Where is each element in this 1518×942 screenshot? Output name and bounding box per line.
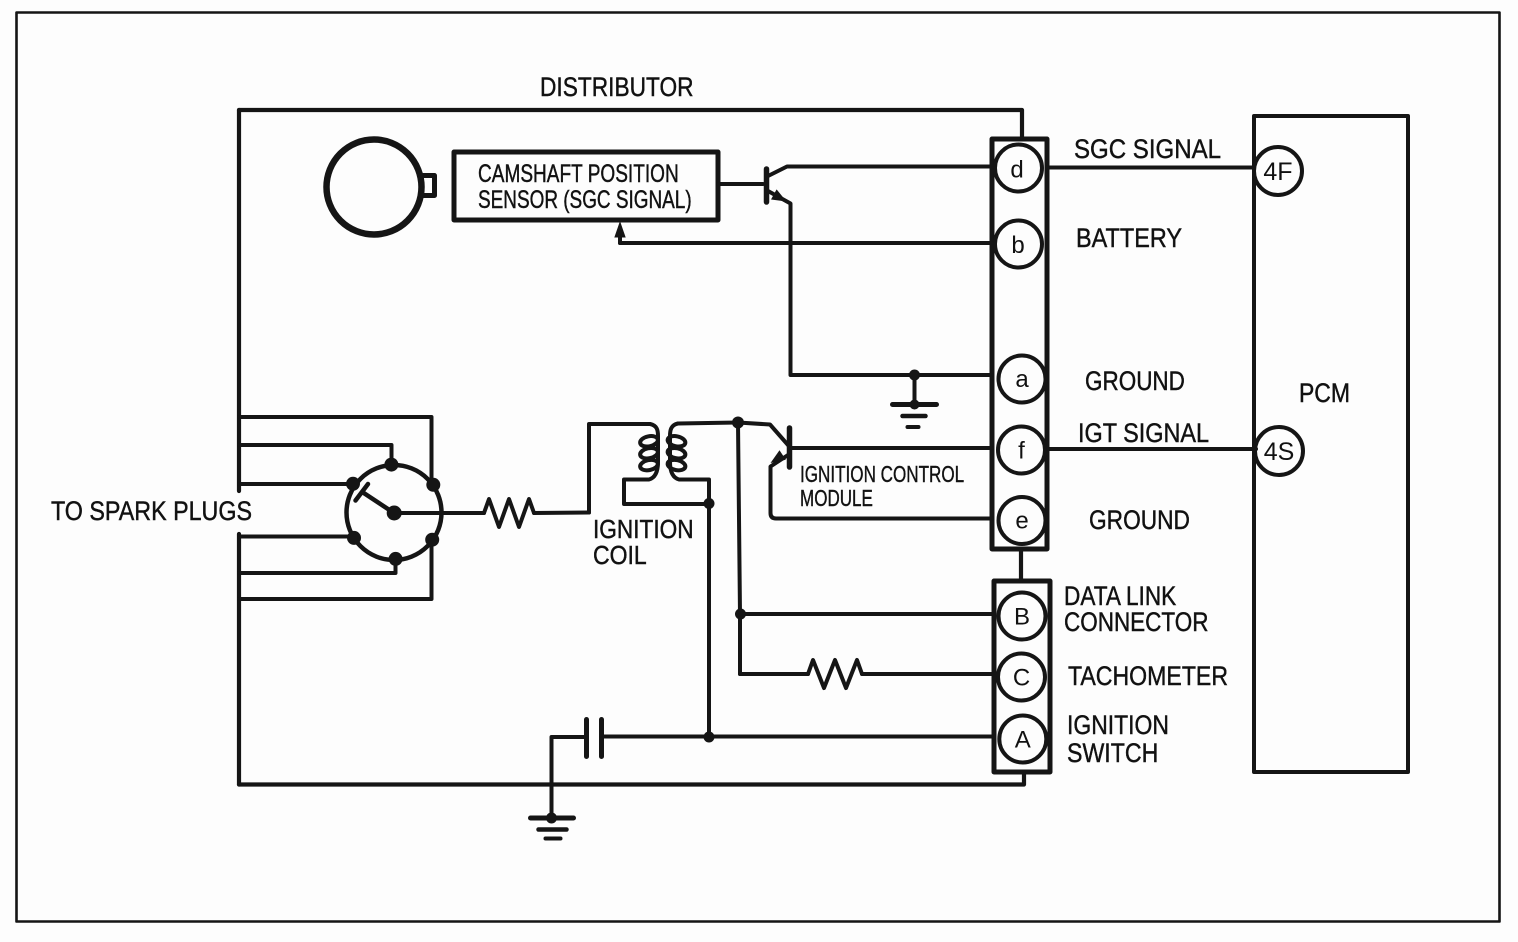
svg-text:DATA LINK: DATA LINK <box>1064 581 1177 611</box>
svg-text:f: f <box>1018 438 1025 465</box>
svg-text:IGNITION: IGNITION <box>593 516 694 545</box>
svg-text:IGT SIGNAL: IGT SIGNAL <box>1078 419 1209 449</box>
svg-text:B: B <box>1014 604 1030 631</box>
svg-text:4S: 4S <box>1264 438 1295 466</box>
svg-text:GROUND: GROUND <box>1085 367 1185 396</box>
svg-text:BATTERY: BATTERY <box>1076 224 1182 254</box>
svg-text:a: a <box>1015 366 1029 393</box>
svg-text:CAMSHAFT POSITION: CAMSHAFT POSITION <box>478 160 679 188</box>
svg-text:TO SPARK PLUGS: TO SPARK PLUGS <box>51 496 252 526</box>
svg-text:IGNITION: IGNITION <box>1067 710 1169 740</box>
svg-text:SGC SIGNAL: SGC SIGNAL <box>1074 135 1221 165</box>
svg-text:CONNECTOR: CONNECTOR <box>1064 608 1208 637</box>
svg-text:COIL: COIL <box>593 542 647 571</box>
svg-text:PCM: PCM <box>1299 378 1350 408</box>
svg-text:SWITCH: SWITCH <box>1067 738 1158 768</box>
svg-text:d: d <box>1010 157 1023 184</box>
svg-text:MODULE: MODULE <box>800 487 873 512</box>
svg-text:TACHOMETER: TACHOMETER <box>1068 661 1228 691</box>
svg-text:4F: 4F <box>1263 158 1292 186</box>
svg-text:e: e <box>1015 508 1028 535</box>
svg-text:A: A <box>1015 727 1031 754</box>
svg-text:IGNITION CONTROL: IGNITION CONTROL <box>800 463 964 488</box>
svg-text:GROUND: GROUND <box>1089 505 1190 535</box>
svg-text:C: C <box>1013 665 1030 692</box>
svg-text:b: b <box>1011 232 1024 259</box>
svg-text:SENSOR (SGC SIGNAL): SENSOR (SGC SIGNAL) <box>478 185 692 213</box>
svg-text:DISTRIBUTOR: DISTRIBUTOR <box>540 72 694 102</box>
